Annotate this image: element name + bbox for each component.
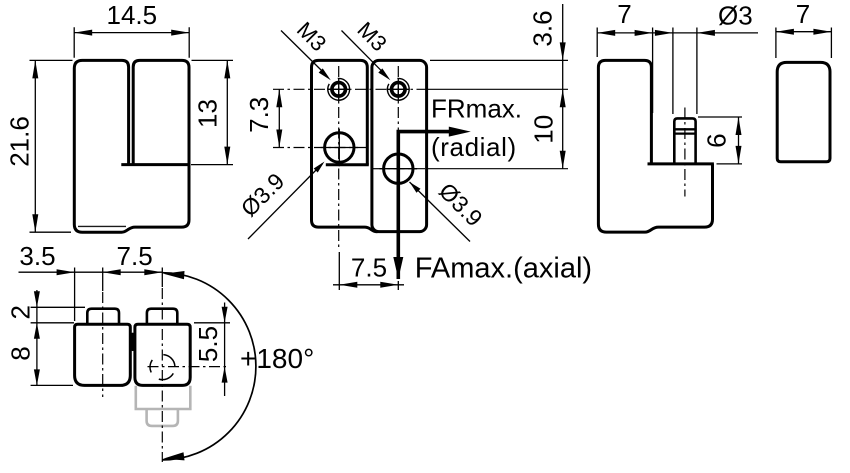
dimension 2 and 8 [6, 290, 86, 385]
label diameter 3.9 left [236, 162, 325, 240]
dimension 6 (pin height) [698, 117, 742, 164]
dimension 21.6 [5, 60, 73, 232]
dimension 13 [191, 60, 233, 164]
hole 3.9 left [321, 129, 359, 167]
opened side view outline [598, 60, 712, 232]
svg-text:14.5: 14.5 [106, 0, 157, 30]
M3 hole left (thread) [328, 78, 350, 100]
svg-text:7.5: 7.5 [117, 241, 153, 271]
pin circle (top view) [150, 355, 175, 380]
svg-text:7.5: 7.5 [351, 253, 387, 283]
pin center line [684, 108, 686, 197]
ghost leaf (opened position, gray) [136, 386, 191, 426]
center line vertical left leaf [338, 66, 340, 250]
dimension 5.5 [193, 303, 230, 397]
rotation arc 180 deg [162, 273, 256, 460]
center line vertical left block [102, 292, 104, 397]
svg-text:21.6: 21.6 [5, 116, 35, 167]
step surface line [648, 162, 714, 165]
FR arrow (radial force) [393, 127, 471, 279]
dimension 7 (view 4) [776, 0, 832, 58]
label M3 left leader [281, 17, 331, 80]
label M3 right leader [342, 17, 392, 80]
svg-text:3.5: 3.5 [19, 241, 55, 271]
center line vertical right leaf [397, 66, 399, 132]
left leaf slot line [326, 163, 369, 166]
left block outline [75, 324, 131, 385]
pin groove lines [674, 129, 695, 133]
svg-text:3.6: 3.6 [528, 10, 558, 46]
svg-text:FAmax.(axial): FAmax.(axial) [415, 253, 592, 285]
arc arrowhead top [164, 271, 185, 279]
dimension 7 (view 3) [597, 0, 652, 113]
right leaf outline [372, 60, 427, 231]
svg-text:FRmax.: FRmax. [431, 93, 522, 123]
hole 3.9 right [380, 150, 418, 188]
right block outline [135, 324, 190, 385]
svg-text:10: 10 [529, 115, 559, 144]
rear leaf bottom thin line [78, 225, 126, 227]
dimension 7.3 [244, 89, 282, 147]
slot bottom edge [121, 163, 190, 166]
dimension diameter 3 (pin) [653, 1, 758, 115]
leaf outline [777, 62, 830, 161]
svg-text:6: 6 [702, 133, 732, 147]
knuckle wedge between blocks [131, 333, 135, 351]
center line horizontal through M3 holes [273, 88, 428, 90]
left block tab [87, 309, 119, 324]
svg-text:2: 2 [6, 305, 36, 319]
left leaf outline [312, 60, 378, 231]
dimension 3.5 and 7.5 (top) [19, 241, 163, 321]
svg-text:7: 7 [617, 0, 631, 29]
M3 hole right (thread) [387, 78, 409, 100]
svg-text:7.3: 7.3 [244, 97, 274, 133]
dimension 7.5 (front view) [333, 252, 404, 290]
dimension 3.6 and 10 [430, 4, 568, 169]
center line horizontal right big hole [373, 168, 428, 170]
svg-text:5.5: 5.5 [193, 326, 223, 362]
arc arrowhead bottom [163, 452, 185, 460]
svg-text:7: 7 [796, 0, 810, 29]
pin outline [674, 118, 695, 163]
right block tab [147, 309, 177, 324]
side view outline [74, 60, 189, 232]
dimension 14.5 [74, 0, 189, 58]
svg-text:+180°: +180° [240, 343, 314, 374]
svg-text:(radial): (radial) [431, 132, 517, 162]
center line horizontal through pin circle [148, 366, 230, 368]
center line vertical right block / axis [161, 288, 163, 462]
svg-text:13: 13 [193, 99, 223, 128]
center line horizontal left big hole [273, 147, 367, 149]
label diameter 3.9 right [410, 178, 488, 242]
svg-text:8: 8 [6, 346, 36, 360]
svg-text:Ø3: Ø3 [718, 1, 753, 31]
